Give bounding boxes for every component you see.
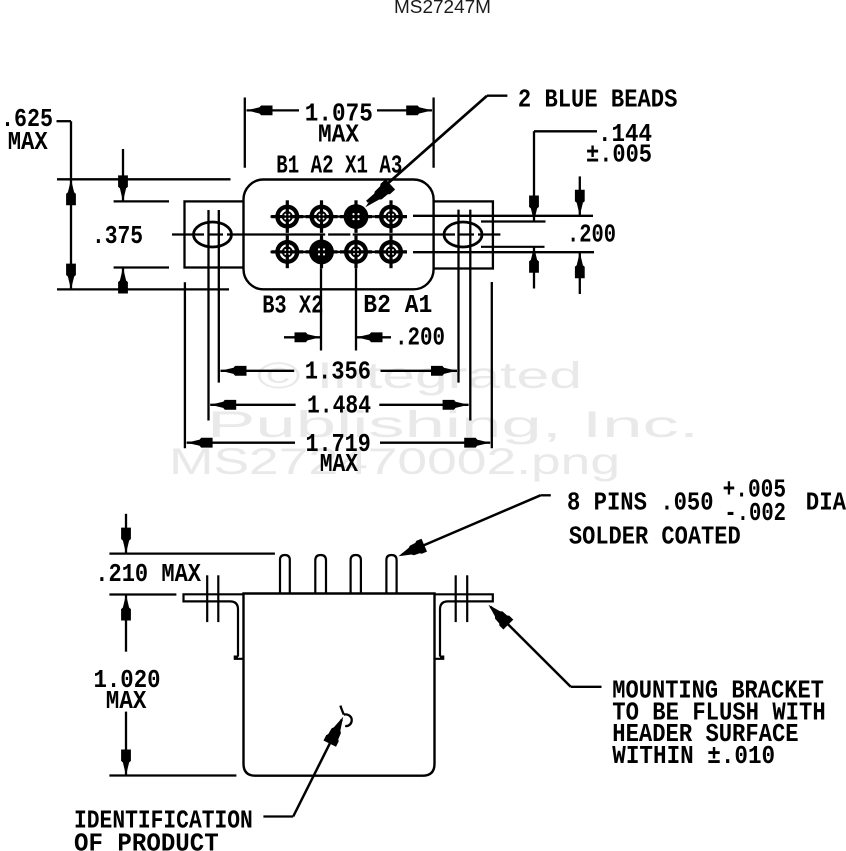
dim .200 bottom arrows [284,332,391,342]
svg-text:2 BLUE BEADS: 2 BLUE BEADS [518,85,678,115]
mounting bracket right (top view) [433,201,493,268]
svg-text:.200: .200 [395,323,445,353]
mounting hole right (ellipse) [444,222,482,247]
svg-text:MS272470002.png: MS272470002.png [169,441,620,482]
dim .144 leader [529,131,597,221]
svg-text:8 PINS .050: 8 PINS .050 [567,487,714,517]
pin B3 [271,236,303,269]
callout text IDENTIFICATION OF PRODUCT [74,806,253,851]
hatch marks right flange [456,575,468,622]
dim .375 extension lines [114,201,169,267]
hatch marks left flange [207,575,218,622]
pin top extension line (side view) [109,552,275,554]
svg-text:B2 A1: B2 A1 [363,290,432,320]
dim .210 upper arrow [121,514,131,554]
svg-text:B3 X2: B3 X2 [262,291,323,321]
mounting bracket right (side view) [435,594,493,659]
dim 1.075 extension lines [245,98,434,168]
dim text .200 bottom [395,323,445,353]
callout text 8 PINS [567,475,846,552]
pin X2 (blue bead, filled) [306,236,338,269]
dim 1.719 line and arrows [187,438,491,448]
svg-text:OF PRODUCT: OF PRODUCT [74,829,219,851]
callout 2 BLUE BEADS leader [365,96,507,208]
watermark line 1 [257,355,582,396]
dim text 1.719 MAX [306,429,371,479]
svg-text:B1 A2 X1 A3: B1 A2 X1 A3 [276,150,402,180]
dim text .375 [92,221,143,251]
pin B1 [271,200,303,233]
can bottom extension line [109,774,236,776]
dim 1.020 lower arrow [121,712,131,776]
pin A3 [375,200,407,233]
svg-text:MAX: MAX [320,449,359,479]
callout 8 PINS leader [399,495,551,556]
extension line X2 column down [320,268,322,350]
pin row line top (extends right to .144/.200 dims) [271,215,594,218]
watermark line 3 [169,441,620,482]
svg-text:.375: .375 [92,221,143,251]
identification tick mark [340,706,351,726]
svg-text:1.484: 1.484 [307,391,371,421]
dim text 1.356 [305,356,371,386]
body top edge extension line [57,178,231,180]
extension line B2 column down [355,268,357,350]
svg-text:Publishing, Inc.: Publishing, Inc. [207,404,699,445]
dim 1.484 extension lines [209,210,471,421]
dim text .144 ±.005 [586,119,652,170]
svg-text:1.356: 1.356 [305,356,371,386]
svg-text:DIA: DIA [806,487,846,517]
callout IDENTIFICATION leader [263,717,343,817]
callout MOUNTING BRACKET leader [489,605,602,687]
dim text .200 right [567,220,616,250]
relay body outline (top view) [244,180,434,290]
bead edge line upper (short, right) [481,220,546,222]
dim .144 lower arrow [529,247,539,289]
dim text .625 MAX [1,104,53,157]
dim 1.719 extension lines [185,282,492,448]
svg-text:MAX: MAX [8,127,48,157]
dim 1.484 line and arrows [210,400,468,410]
dim .375 arrows [118,149,128,294]
dim text .210 MAX [95,559,201,589]
relay can outline (side view) [244,594,435,776]
dim text 1.484 [307,391,371,421]
svg-text:.210 MAX: .210 MAX [95,559,201,589]
dim 1.075 line and arrows [247,106,433,116]
pin A1 [375,236,407,269]
dim .625 leader and line [57,121,76,290]
watermark line 2 [207,404,699,445]
dim text 1.075 MAX [305,99,373,150]
body bottom edge extension line [57,288,229,290]
pin label B3 X2 [262,291,323,321]
pin row line bottom (extends right) [271,251,595,254]
svg-text:WITHIN ±.010: WITHIN ±.010 [612,741,775,771]
mounting hole left (ellipse) [194,222,232,247]
mounting bracket left (side view) [184,594,244,659]
pin labels top row [276,150,402,180]
bead edge line lower (short, right) [481,246,545,248]
dim 1.356 line and arrows [221,366,458,376]
mounting bracket left (top view) [185,201,245,267]
svg-text:±.005: ±.005 [586,140,652,170]
callout text 2 BLUE BEADS [518,85,678,115]
svg-text:.200: .200 [567,220,616,250]
pin X1 (blue bead, filled) [340,200,372,233]
dim text 1.020 MAX [94,665,161,716]
pin B2 [340,236,372,269]
title MS27247M [394,0,491,17]
header surface extension line [109,593,176,595]
svg-text:SOLDER COATED: SOLDER COATED [569,522,741,552]
svg-text:MAX: MAX [318,120,359,150]
callout text MOUNTING BRACKET [612,676,825,771]
svg-text:MS27247M: MS27247M [394,0,491,17]
dim .200 right arrows [575,176,585,294]
solder pins (side view) [280,555,397,595]
horizontal centerline (top view) [172,233,500,235]
pin label B2 A1 [363,290,432,320]
dim .210/1.020 middle arrow [121,595,131,652]
dim 1.356 extension lines [219,210,459,383]
pin A2 [306,200,338,233]
